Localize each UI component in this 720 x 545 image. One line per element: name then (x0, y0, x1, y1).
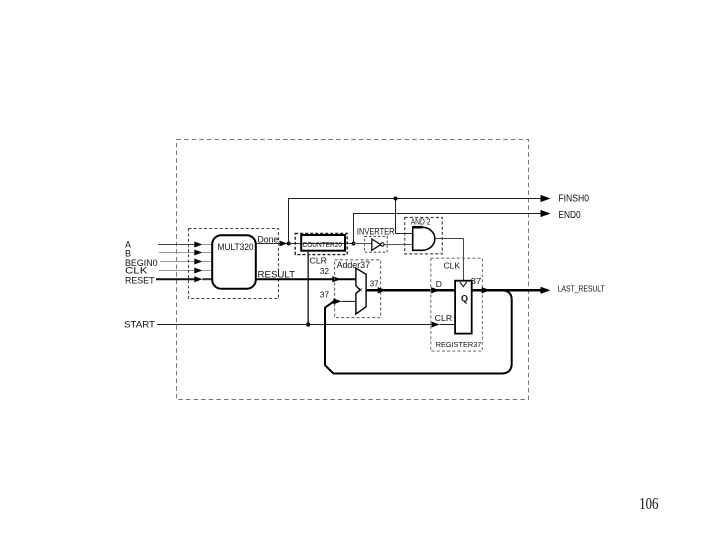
wire RESET input (156, 278, 195, 280)
svg-text:Q: Q (461, 294, 468, 304)
arrowhead adder output (378, 287, 387, 293)
arrowhead into register D (431, 287, 440, 293)
svg-text:INVERTER: INVERTER (357, 227, 395, 237)
wire A input (158, 244, 195, 246)
wire BEGIN0 stub to MULT (202, 261, 212, 263)
junction dot FINSH0/AND (394, 197, 398, 201)
wire START (157, 324, 432, 326)
svg-text:Adder37: Adder37 (337, 260, 370, 270)
wire BEGIN0 input (160, 261, 195, 263)
svg-text:32: 32 (320, 266, 330, 276)
arrowhead CLK (194, 268, 202, 274)
wire Done (256, 243, 287, 245)
wire FINSH0 horizontal (288, 198, 542, 200)
wire into inverter (354, 243, 372, 245)
wire adder output bus (366, 289, 455, 292)
REGISTER37 dashed box (431, 258, 483, 351)
svg-text:37: 37 (370, 279, 379, 289)
wire AND top input vertical (395, 199, 397, 234)
outer dashed boundary (177, 140, 529, 400)
wire B stub to MULT (202, 252, 212, 254)
counter COUNTER20 (301, 235, 345, 251)
wire CLK input (159, 270, 195, 272)
MULT320 dashed box (189, 229, 279, 299)
arrowhead RESET (194, 276, 202, 282)
junction dot Done/FINSH0 (287, 242, 291, 246)
svg-text:COUNTER20: COUNTER20 (303, 242, 343, 249)
svg-text:FINSH0: FINSH0 (558, 194, 589, 205)
arrowhead FINSH0 (541, 195, 551, 202)
wire B input (159, 252, 195, 254)
wire CLK stub to MULT (202, 270, 212, 272)
svg-text:END0: END0 (558, 210, 581, 221)
adder mux shape (356, 268, 366, 314)
svg-text:CLR: CLR (435, 313, 453, 323)
svg-text:37: 37 (320, 290, 330, 300)
arrowhead after register (482, 287, 491, 293)
svg-text:B: B (125, 248, 131, 258)
svg-text:RESET: RESET (125, 275, 155, 285)
arrowhead END0 (541, 210, 551, 217)
svg-text:CLK: CLK (444, 261, 461, 271)
AND dashed box (405, 218, 443, 254)
wire COUNTER20 CLR vertical (307, 251, 309, 325)
wire END0 vertical riser (353, 214, 355, 244)
arrowhead B (194, 250, 202, 256)
wire register Q output bus (472, 289, 542, 292)
arrowhead START into register CLR (432, 322, 440, 328)
arrowhead BEGIN0 (194, 259, 202, 265)
COUNTER20 dashed box (295, 233, 347, 254)
svg-text:106: 106 (639, 494, 658, 513)
arrowhead A (194, 242, 202, 248)
wire clock vertical to register (463, 239, 465, 281)
INVERTER dashed box (365, 236, 388, 252)
wire RESULT bus (256, 278, 356, 280)
wire FINSH0 vertical riser (288, 198, 290, 244)
svg-text:REGISTER37: REGISTER37 (436, 340, 482, 349)
arrowhead Done into COUNTER20 (280, 241, 288, 247)
wire inverter out to AND (384, 244, 413, 246)
arrowhead RESULT into adder (332, 276, 341, 282)
inverter bubble (381, 243, 384, 246)
wire Done through COUNTER20 (289, 243, 352, 245)
and-gate U2 (413, 227, 435, 250)
junction dot COUNTER20 output (352, 242, 356, 246)
junction dot START/CLR (306, 322, 310, 326)
svg-text:CLK: CLK (125, 266, 147, 276)
register clock chevron (460, 282, 467, 287)
block MULT320 (212, 235, 256, 288)
wire AND output (435, 238, 464, 240)
wire A stub to MULT (202, 244, 212, 246)
register REGISTER37 box (455, 281, 472, 334)
feedback loop wire (325, 290, 512, 373)
arrowhead feedback into adder (333, 298, 341, 304)
svg-text:LAST_RESULT: LAST_RESULT (558, 284, 605, 294)
arrowhead LAST_RESULT (541, 287, 551, 294)
wire RESET stub to MULT (202, 278, 212, 280)
svg-text:CLR: CLR (310, 256, 328, 266)
wire feedback stub into adder (341, 300, 356, 302)
wire AND top input horizontal (396, 233, 413, 235)
wire CLR stub into register (440, 324, 456, 326)
svg-text:START: START (124, 320, 156, 330)
Adder37 dashed box (335, 260, 381, 318)
wire END0 horizontal (353, 213, 542, 215)
and-gate top edge thick (412, 226, 422, 229)
svg-text:MULT320: MULT320 (218, 242, 254, 253)
inverter U1 triangle (372, 239, 381, 250)
svg-text:D: D (436, 279, 442, 289)
